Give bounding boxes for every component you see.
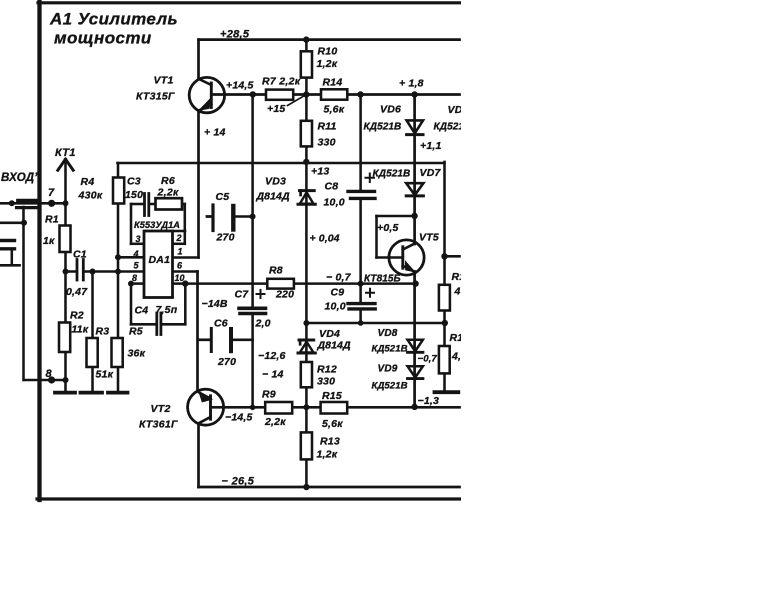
svg-text:0,47: 0,47 xyxy=(66,286,88,298)
svg-text:− 0,7: − 0,7 xyxy=(326,272,352,284)
svg-text:VT5: VT5 xyxy=(419,232,439,244)
svg-text:+0,5: +0,5 xyxy=(377,222,399,234)
svg-text:51к: 51к xyxy=(96,369,114,381)
svg-text:+1,1: +1,1 xyxy=(420,140,442,152)
svg-text:Д814Д: Д814Д xyxy=(256,191,291,203)
svg-text:330: 330 xyxy=(317,376,335,388)
svg-text:270: 270 xyxy=(217,356,236,368)
svg-text:DA1: DA1 xyxy=(149,254,171,266)
svg-text:С9: С9 xyxy=(331,287,345,299)
svg-text:мощности: мощности xyxy=(54,29,152,48)
svg-text:Д814Д: Д814Д xyxy=(317,340,352,352)
svg-text:КТ815Б: КТ815Б xyxy=(364,274,401,285)
svg-text:R7 2,2к: R7 2,2к xyxy=(262,76,301,88)
svg-text:− 26,5: − 26,5 xyxy=(222,476,255,488)
svg-text:5,6к: 5,6к xyxy=(324,104,345,116)
svg-text:К553УД1А: К553УД1А xyxy=(134,220,180,230)
svg-text:С1: С1 xyxy=(73,249,87,261)
svg-text:1к: 1к xyxy=(43,235,55,247)
svg-text:4: 4 xyxy=(133,249,139,259)
svg-text:1,2к: 1,2к xyxy=(317,58,338,70)
svg-text:−0,7: −0,7 xyxy=(418,354,438,365)
svg-text:+ 0,04: + 0,04 xyxy=(310,233,340,245)
svg-text:−12,6: −12,6 xyxy=(258,350,286,362)
svg-text:VD6: VD6 xyxy=(380,104,401,116)
svg-text:−14В: −14В xyxy=(202,298,228,310)
svg-text:5,6к: 5,6к xyxy=(322,418,343,430)
svg-text:VD3: VD3 xyxy=(265,176,286,188)
svg-text:1: 1 xyxy=(178,247,183,257)
svg-text:КТ1: КТ1 xyxy=(55,147,76,159)
svg-text:С8: С8 xyxy=(325,181,339,193)
svg-text:36к: 36к xyxy=(128,348,146,360)
svg-text:430к: 430к xyxy=(78,190,103,202)
svg-text:220: 220 xyxy=(275,289,294,301)
svg-text:− 14: − 14 xyxy=(262,369,284,381)
svg-text:ВХОД”: ВХОД” xyxy=(1,172,40,184)
svg-text:−1,3: −1,3 xyxy=(418,395,440,407)
svg-text:2: 2 xyxy=(176,233,182,243)
svg-text:2,2к: 2,2к xyxy=(157,187,179,199)
svg-text:КТ315Г: КТ315Г xyxy=(136,91,175,103)
svg-text:330: 330 xyxy=(318,137,336,149)
svg-text:10: 10 xyxy=(175,273,185,283)
svg-text:КД521В: КД521В xyxy=(364,122,402,133)
svg-text:270: 270 xyxy=(216,232,235,244)
svg-text:10,0: 10,0 xyxy=(325,301,346,313)
svg-text:2,0: 2,0 xyxy=(255,318,271,330)
svg-text:7,5п: 7,5п xyxy=(156,304,178,316)
svg-text:R3: R3 xyxy=(96,326,110,338)
svg-text:R11: R11 xyxy=(318,121,337,133)
svg-text:10,0: 10,0 xyxy=(324,197,345,209)
svg-text:11к: 11к xyxy=(72,324,89,336)
svg-text:R15: R15 xyxy=(322,390,342,402)
svg-text:R14: R14 xyxy=(323,77,343,89)
svg-text:−14,5: −14,5 xyxy=(225,412,253,424)
svg-text:VD8: VD8 xyxy=(378,328,398,339)
svg-text:+13: +13 xyxy=(311,166,329,178)
svg-text:R5: R5 xyxy=(129,326,143,338)
svg-text:+15: +15 xyxy=(267,103,285,115)
svg-text:КТ361Г: КТ361Г xyxy=(139,419,178,431)
svg-text:2,2к: 2,2к xyxy=(264,416,286,428)
svg-text:КД521В: КД521В xyxy=(373,169,411,180)
svg-text:+28,5: +28,5 xyxy=(220,29,250,41)
svg-text:С3: С3 xyxy=(127,176,141,188)
svg-text:+ 14: + 14 xyxy=(204,127,226,139)
svg-text:R13: R13 xyxy=(320,436,340,448)
svg-text:7: 7 xyxy=(48,187,55,199)
svg-text:8: 8 xyxy=(46,368,53,380)
svg-text:VD4: VD4 xyxy=(319,328,340,340)
svg-text:3: 3 xyxy=(136,234,141,244)
svg-text:С4: С4 xyxy=(135,305,149,317)
svg-text:С5: С5 xyxy=(216,191,230,203)
svg-text:R4: R4 xyxy=(81,176,95,188)
svg-text:1,2к: 1,2к xyxy=(317,449,338,461)
svg-text:R12: R12 xyxy=(317,364,337,376)
svg-text:R6: R6 xyxy=(161,175,175,187)
svg-text:КД521В: КД521В xyxy=(372,344,408,355)
svg-text:+ 1,8: + 1,8 xyxy=(399,78,424,90)
svg-text:КД521В: КД521В xyxy=(372,381,408,392)
svg-text:VT1: VT1 xyxy=(154,75,174,87)
svg-text:R8: R8 xyxy=(269,265,283,277)
svg-text:150: 150 xyxy=(125,189,143,201)
svg-text:R1: R1 xyxy=(45,214,59,226)
svg-text:VD9: VD9 xyxy=(378,364,398,375)
svg-text:С7: С7 xyxy=(235,289,250,301)
svg-text:+14,5: +14,5 xyxy=(226,80,254,92)
svg-text:VD7: VD7 xyxy=(420,167,442,179)
svg-text:8: 8 xyxy=(132,273,137,283)
svg-text:С6: С6 xyxy=(214,318,228,330)
svg-text:R9: R9 xyxy=(262,389,276,401)
svg-text:VT2: VT2 xyxy=(151,403,171,415)
svg-text:А1 Усилитель: А1 Усилитель xyxy=(49,10,178,29)
svg-text:R2: R2 xyxy=(70,310,84,322)
svg-text:R10: R10 xyxy=(318,46,338,58)
